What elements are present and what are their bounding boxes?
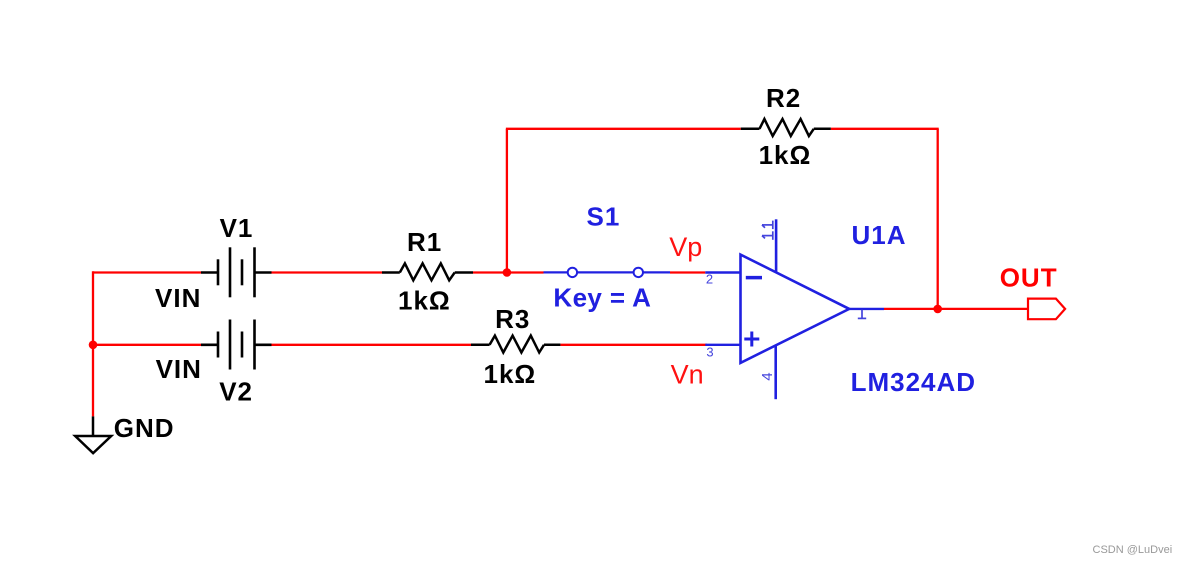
wire R3 to op-amp node Vn [560,344,707,346]
wire V1 to R1 [272,271,383,273]
svg-text:LM324AD: LM324AD [851,367,976,397]
svg-text:R1: R1 [407,227,442,257]
svg-text:R2: R2 [766,83,801,113]
svg-text:Vp: Vp [669,232,702,262]
svg-text:Key = A: Key = A [553,282,651,312]
switch S1 [544,268,671,277]
svg-text:Vn: Vn [671,360,704,390]
pin number 1 [858,310,866,319]
wire left rail vertical [92,271,94,416]
svg-text:R3: R3 [495,304,530,334]
svg-text:GND: GND [114,413,175,443]
svg-text:V1: V1 [220,213,254,243]
wire node to V2 [93,344,201,346]
svg-text:S1: S1 [587,201,621,231]
wire feedback top right [831,128,939,130]
svg-text:VIN: VIN [156,354,202,384]
ground [75,416,111,453]
svg-text:VIN: VIN [155,283,201,313]
junction node A (R1/S1/feedback) [503,268,512,277]
svg-text:1kΩ: 1kΩ [484,359,537,389]
wire left rail horizontal top (node to V1) [93,271,201,273]
svg-text:1kΩ: 1kΩ [759,140,812,170]
resistor R1 [382,263,473,280]
wire node Vp [670,271,705,273]
wire R1 to switch S1 [473,271,544,273]
svg-text:1kΩ: 1kΩ [398,286,451,316]
svg-text:3: 3 [706,345,713,360]
wire op-amp pin 3 [705,344,740,346]
wire feedback right vertical [937,129,939,309]
resistor R2 [741,119,831,136]
junction node VIN rail [89,341,98,350]
wire output to OUT [884,308,1028,310]
connector OUT [1028,299,1065,320]
svg-text:2: 2 [706,272,713,287]
wire feedback left vertical [506,129,508,273]
wire feedback top left [506,128,741,130]
voltage source V2 [201,320,272,370]
svg-text:CSDN @LuDvei: CSDN @LuDvei [1093,544,1173,556]
svg-text:U1A: U1A [852,220,907,250]
junction node OUT [933,305,942,314]
op-amp U1A [741,219,885,399]
resistor R3 [471,336,560,353]
svg-text:OUT: OUT [1000,263,1058,293]
pin number 11 [762,221,773,240]
svg-text:4: 4 [759,372,776,380]
voltage source V1 [201,247,272,297]
wire op-amp pin 2 [705,271,740,273]
svg-text:V2: V2 [219,376,253,406]
wire V2 to R3 [272,344,472,346]
